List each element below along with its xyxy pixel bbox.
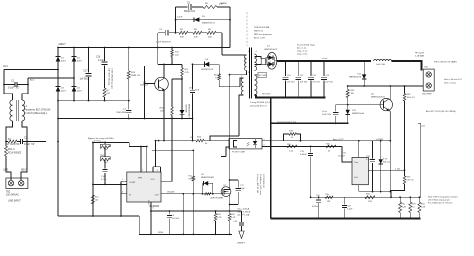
resistor R23: [214, 211, 222, 234]
wire bridge gnd down: [57, 101, 59, 216]
capacitor C8: [189, 64, 200, 118]
junction dots bottom bus: [57, 100, 105, 102]
svg-text:TL431?: TL431?: [338, 156, 346, 158]
svg-text:27 1/2W 5%: 27 1/2W 5%: [7, 144, 20, 146]
svg-text:1N4148W: 1N4148W: [116, 112, 127, 114]
svg-text:10pF: 10pF: [240, 188, 245, 190]
junction sense row: [150, 210, 231, 212]
pin U1 pin7 VCC top: [141, 147, 143, 173]
svg-text:TB2: TB2: [6, 192, 11, 194]
wire comp left col: [92, 142, 94, 216]
svg-text:2-2uF: 2-2uF: [366, 159, 372, 161]
svg-text:NCTUM: NCTUM: [259, 75, 267, 77]
svg-text:4007: 4007: [77, 61, 83, 63]
wire comp wire: [93, 183, 127, 185]
node +5 label: [322, 58, 328, 60]
diode D11: [349, 74, 366, 80]
wire diode column: [363, 61, 365, 86]
svg-text:with 3 Watt output power: with 3 Watt output power: [428, 199, 450, 202]
svg-text:1uF 16V: 1uF 16V: [312, 82, 320, 84]
svg-text:0.1uF "X2": 0.1uF "X2": [24, 144, 35, 146]
svg-text:Ipk = 1.1a: Ipk = 1.1a: [297, 48, 307, 50]
svg-text:MMBT4403LT1: MMBT4403LT1: [371, 97, 386, 99]
pin U1 pin1 COMP: [121, 179, 127, 181]
note pin1 text: [434, 61, 458, 64]
svg-text:TBxxTWH: TBxxTWH: [422, 94, 432, 96]
wire q1 top rail: [158, 63, 182, 65]
junction r19 col: [128, 100, 130, 102]
resistor R32: [365, 194, 375, 203]
wire r13 top: [172, 78, 182, 80]
zener D8: [180, 79, 190, 120]
svg-text:+RECT: +RECT: [58, 44, 66, 46]
transistor Q2 MOSFET: [210, 185, 231, 200]
resistor R4: [202, 29, 222, 39]
capacitor C13: [321, 61, 334, 98]
wire +5V bus thick 2: [392, 61, 422, 71]
diode D10 dual schottky: [261, 46, 278, 70]
svg-text:Rout = 40 max 170: Rout = 40 max 170: [444, 78, 462, 81]
wire to tl431: [342, 146, 352, 162]
op-amp U1 PWM controller UC3842B: [127, 172, 161, 208]
transformer T1 secondary winding upper: [255, 51, 258, 71]
wire opto stub: [221, 155, 226, 157]
svg-text:10uF: 10uF: [195, 90, 200, 92]
svg-text:VFB: VFB: [138, 178, 143, 180]
junction q1 top rail: [163, 64, 173, 66]
wire bridge right mid: [73, 62, 75, 87]
svg-text:2.1A MAX: 2.1A MAX: [415, 55, 425, 58]
svg-text:pxd: pxd: [422, 126, 425, 128]
svg-text:2-2R: 2-2R: [402, 207, 407, 209]
wire to choke right: [22, 85, 28, 101]
zener D9: [201, 174, 215, 194]
svg-text:Iavg = 0.1a: Iavg = 0.1a: [297, 54, 308, 56]
wire drain column: [229, 75, 231, 187]
junction gate wire: [192, 150, 194, 195]
svg-text:4.7V: 4.7V: [383, 159, 388, 161]
pin U1 pin3 ISNS: [121, 192, 127, 194]
wire choke left down: [6, 121, 13, 142]
wire B+ bus: [58, 47, 230, 49]
wire sec top to diode: [255, 57, 262, 59]
resistor R3: [188, 29, 202, 39]
wire bottom rail 1: [359, 191, 391, 193]
svg-text:5: 5: [153, 208, 154, 210]
capacitor C9 gate: [167, 210, 180, 234]
isolation barrier dashed line: [246, 12, 248, 46]
node SRSS gnd label: [158, 232, 164, 234]
transformer T1 tap box: [255, 72, 267, 77]
transformer T1 primary winding: [244, 51, 251, 74]
note tb1 text: [444, 78, 462, 85]
capacitor C12: [308, 61, 321, 98]
svg-text:1uF 16V: 1uF 16V: [300, 82, 308, 84]
wire bus step to primary: [221, 48, 223, 56]
capacitor C15: [322, 105, 338, 125]
wire aux bottom down: [239, 95, 244, 136]
wire q1 collector: [163, 64, 165, 78]
diode D5: [176, 16, 231, 25]
svg-text:4-7nF: 4-7nF: [101, 179, 107, 181]
svg-text:For 3:3Watt part 0.775 ohm: For 3:3Watt part 0.775 ohm: [428, 202, 453, 205]
svg-text:0.1W (2W) filmg caps: 0.1W (2W) filmg caps: [111, 68, 113, 90]
wire secondary return thick: [256, 95, 326, 98]
resistor R5: [203, 3, 230, 9]
junction r11 bottom: [181, 78, 183, 80]
resistor R21: [100, 142, 110, 151]
node output label: [297, 44, 316, 56]
junction q1 base: [144, 83, 146, 85]
svg-text:1.13mH (differential) L: 1.13mH (differential) L: [25, 112, 48, 115]
capacitor C2: [17, 138, 35, 147]
pin U1 pin5 GND bottom: [151, 202, 154, 234]
resistor R6: [214, 64, 221, 86]
svg-text:TRSUS NUCMA: TRSUS NUCMA: [254, 26, 270, 29]
wire vcc row: [219, 86, 240, 88]
junction dots snubber: [175, 19, 231, 34]
wire to choke left: [4, 85, 13, 101]
junction fb row2: [310, 146, 312, 148]
resistor R1: [6, 139, 20, 146]
capacitor C31: [342, 197, 353, 218]
wire AC2 vertical: [27, 78, 29, 85]
diode D6: [192, 59, 220, 71]
wire vref rail: [93, 141, 129, 143]
svg-text:680pF 1kV: 680pF 1kV: [184, 11, 196, 13]
wire q5 emitter col: [389, 141, 391, 192]
resistor R22: [100, 147, 110, 164]
wire U1 left pins col: [120, 181, 122, 194]
wire opto left bottom: [226, 147, 229, 156]
svg-text:MMBZ5240B3: MMBZ5240B3: [201, 177, 215, 179]
svg-text:Next 3 NPO sharp-pulse resisto: Next 3 NPO sharp-pulse resistors: [428, 196, 458, 199]
transistor Q1: [140, 77, 168, 91]
wire drain: [228, 180, 229, 190]
svg-text:Bid ami: Bid ami: [383, 162, 390, 164]
resistor R10: [171, 48, 180, 65]
svg-text:8: 8: [157, 170, 158, 172]
optocoupler U2: [229, 139, 262, 154]
resistor R33: [409, 197, 417, 218]
resistor R24: [228, 211, 236, 234]
resistor R34: [418, 197, 426, 218]
zener D13: [379, 141, 391, 192]
wire drain top: [230, 179, 239, 181]
svg-text:4007: 4007: [61, 91, 67, 93]
capacitor C30: [312, 195, 321, 219]
wire fb rail: [271, 140, 391, 142]
svg-text:UKECHCM3B: UKECHCM3B: [210, 198, 224, 200]
svg-text:1N4148: 1N4148: [167, 191, 175, 193]
wire q1 base col: [144, 66, 146, 119]
wire bridge left mid: [57, 62, 59, 87]
wire RT pin column: [161, 119, 172, 182]
note sense text: [277, 121, 296, 123]
pin opto pin numbers: [264, 139, 265, 147]
svg-text:43K: 43K: [180, 37, 184, 39]
wire choke right down: [22, 121, 27, 142]
svg-text:PC793? LINE: PC793? LINE: [232, 152, 245, 154]
svg-text:1-6uF: 1-6uF: [177, 17, 183, 19]
diode D2: [72, 48, 83, 63]
svg-text:PIN 1 CIRCLE OF LABEL: PIN 1 CIRCLE OF LABEL: [434, 61, 458, 64]
svg-text:1uF 16V: 1uF 16V: [287, 82, 295, 84]
junction vcc row: [155, 140, 194, 142]
terminal block TB1: [422, 67, 434, 96]
capacitor C7: [116, 109, 131, 119]
svg-text:R3x: R3x: [326, 194, 330, 196]
wire line to TB2: [6, 165, 11, 180]
capacitor C1: [4, 80, 28, 90]
node pxd stub: [418, 123, 425, 197]
wire source: [228, 194, 229, 211]
capacitor C5: [176, 3, 204, 14]
svg-text:SRSS: SRSS: [158, 232, 164, 234]
svg-text:10R: 10R: [368, 201, 372, 203]
svg-text:2: 2: [270, 61, 271, 63]
svg-text:MMBZ52xxB: MMBZ52xxB: [352, 113, 365, 115]
svg-text:MELH 14: MELH 14: [254, 31, 264, 33]
pin U1 pin8 VREF top 2: [146, 147, 148, 173]
resistor R9 gate: [205, 193, 212, 195]
svg-text:Apxx (1) XT: Apxx (1) XT: [333, 138, 344, 141]
wire primary gnd rail: [58, 118, 193, 120]
svg-text:Iavg = 1.1a: Iavg = 1.1a: [297, 51, 308, 53]
op-amp U3 TL431: [338, 153, 368, 185]
resistor R27: [325, 194, 333, 203]
svg-text:RV1.0: RV1.0: [8, 149, 15, 151]
node +RECT label: [58, 44, 66, 46]
capacitor C16: [96, 48, 107, 89]
pin U3 bottom pin: [358, 185, 360, 192]
junction u3 top: [358, 140, 360, 142]
node sec return label: [262, 94, 271, 96]
svg-text:Sru = 440uA: Sru = 440uA: [238, 208, 250, 211]
diode D3: [56, 87, 67, 101]
resistor R11: [181, 64, 190, 79]
wire snubber left: [175, 7, 177, 33]
svg-text:15uF 10V: 15uF 10V: [322, 114, 332, 116]
wire AC2 line: [28, 77, 74, 79]
svg-text:COMP: COMP: [129, 182, 136, 184]
diode D4: [72, 87, 83, 101]
svg-text:Tran: Tran: [354, 162, 358, 164]
svg-text:1-10k: 1-10k: [395, 168, 400, 170]
svg-text:NBT line appearanc: NBT line appearanc: [254, 33, 272, 36]
junction fb rail: [270, 140, 391, 142]
capacitor C22 snub: [236, 180, 246, 205]
svg-text:1: 1: [122, 179, 123, 181]
wire primary ground bus: [139, 233, 232, 235]
svg-text:+5 xxx: +5 xxx: [322, 58, 328, 60]
svg-text:1uF 400V filtering: 1uF 400V filtering: [108, 68, 111, 86]
varistor RV1: [5, 142, 22, 166]
wire vcc row left: [156, 140, 193, 142]
wire aux top: [240, 78, 244, 87]
wire neut to TB2: [21, 165, 27, 180]
transformer T1 secondary winding lower: [255, 75, 258, 99]
svg-text:4007: 4007: [61, 61, 67, 63]
svg-text:0.1uF: 0.1uF: [98, 60, 104, 62]
svg-text:C17: C17: [83, 71, 88, 73]
svg-text:MMSD914T1: MMSD914T1: [202, 23, 216, 25]
note rotated text: [256, 174, 264, 195]
wire secondary ground bus thick: [271, 217, 421, 219]
resistor R20: [287, 144, 297, 153]
svg-text:RETURN: RETURN: [262, 94, 271, 96]
node LINE label: [3, 170, 9, 172]
svg-text:0-1R: 0-1R: [421, 207, 426, 209]
wire primary ground bus step: [138, 216, 140, 234]
svg-text:1N5245B: 1N5245B: [185, 104, 187, 113]
svg-text:C3x: C3x: [316, 195, 320, 197]
capacitor C4: [156, 29, 180, 43]
svg-text:43K: 43K: [194, 37, 198, 39]
resistor R13: [159, 79, 173, 119]
svg-text:Gnd = 4 max: Gnd = 4 max: [444, 83, 457, 85]
capacitor C17: [79, 48, 91, 101]
wire primary top: [222, 54, 247, 56]
resistor R31: [399, 197, 407, 218]
svg-text:LINE INPUT: LINE INPUT: [8, 201, 21, 203]
wire fb row: [192, 119, 194, 141]
resistor R14: [190, 137, 229, 146]
junction dots damping row: [5, 141, 28, 143]
junction comp wire: [92, 184, 122, 186]
pin U1 pin8 VREF top: [153, 141, 161, 172]
svg-text:L-primary: L-primary: [244, 57, 246, 65]
resistor R7: [103, 88, 110, 101]
wire opto right bottom: [262, 145, 287, 147]
svg-text:T-mag F15008 Q-5 B: T-mag F15008 Q-5 B: [250, 102, 271, 104]
resistor R17: [152, 150, 195, 193]
svg-text:MURS160T3: MURS160T3: [201, 69, 214, 71]
resistor R25: [326, 144, 336, 153]
svg-text:TxxxLxxxTxxxd xx xxd: TxxxLxxxTxxxd xx xxd: [277, 121, 296, 123]
junction bridge mids: [57, 69, 75, 79]
svg-text:74R: 74R: [327, 201, 331, 203]
svg-text:GT/TD3 MW 1W: GT/TD3 MW 1W: [262, 174, 264, 188]
junction drain node: [229, 179, 231, 205]
transformer T1 label: [250, 102, 271, 107]
svg-text:GND: GND: [147, 200, 149, 205]
svg-text:(C) Img = 4W5 LY 1dB: (C) Img = 4W5 LY 1dB: [256, 174, 258, 194]
junction out wire: [182, 193, 184, 195]
junction vcc rail: [140, 146, 148, 148]
svg-text:1-1R: 1-1R: [217, 217, 222, 219]
wire snubber right: [229, 7, 231, 48]
wire r17 col to gnd: [192, 194, 194, 235]
pin U3 right pin: [368, 168, 405, 171]
junction u1 pins col: [120, 184, 122, 186]
svg-text:100-240VAC: 100-240VAC: [6, 194, 19, 197]
svg-text:ALTD = LHT: ALTD = LHT: [254, 37, 266, 40]
svg-text:249 1%: 249 1%: [407, 180, 414, 182]
svg-text:1: 1: [270, 54, 271, 56]
junction bottom rail: [372, 191, 392, 193]
wire gate: [221, 193, 223, 195]
wire out pulldown col: [182, 194, 184, 235]
pin U1 pin6 OUT: [161, 191, 221, 194]
note adj text: [333, 138, 383, 141]
wire vcc rail: [129, 146, 147, 148]
resistor R2: [179, 29, 188, 39]
wire q5 collector: [389, 86, 391, 100]
resistor R29: [391, 170, 414, 197]
wire primary ground bus left: [58, 215, 139, 217]
wire vcc rail left: [128, 142, 130, 146]
junction sense rail: [390, 196, 420, 198]
wire snubber col right: [221, 33, 223, 55]
svg-text:Teal: Teal: [354, 177, 358, 179]
svg-text:MMSF: MMSF: [221, 3, 228, 5]
svg-text:Isw = 4.40mA: Isw = 4.40mA: [238, 211, 251, 214]
wire +5V bus thick: [277, 60, 371, 62]
diode D1: [56, 48, 67, 63]
svg-text:Bypass for comp xGsYM b: Bypass for comp xGsYM b: [88, 137, 115, 140]
capacitor C24: [234, 211, 245, 231]
svg-text:Ipk = P1.11A: Ipk = P1.11A: [238, 214, 250, 217]
svg-text:0-03uF: 0-03uF: [312, 206, 319, 208]
junction bridge gnd: [57, 118, 59, 143]
svg-text:0-1R: 0-1R: [231, 217, 236, 219]
junction 12V line: [347, 85, 406, 87]
node AC2 label: [30, 79, 35, 82]
svg-text:HP SaUS: HP SaUS: [415, 53, 424, 55]
wire 12V line: [348, 85, 424, 87]
capacitor C11: [295, 61, 308, 98]
svg-text:3: 3: [122, 192, 123, 194]
svg-text:OUT: OUT: [155, 195, 160, 197]
note output hdr: [415, 53, 425, 58]
svg-text:1uF [W]: 1uF [W]: [79, 79, 87, 81]
node rail ticks: [94, 140, 101, 142]
wire primary bottom to drain: [230, 71, 247, 75]
note allow text: [426, 110, 456, 113]
wire AC1 vertical: [3, 70, 5, 85]
svg-text:0.1uF "X2": 0.1uF "X2": [8, 87, 20, 90]
wire sec to diode 2: [255, 64, 262, 66]
note design text: [254, 26, 272, 40]
junction primary gnd: [92, 215, 231, 235]
junction dots vcc row: [229, 74, 231, 76]
junction dots C1: [3, 84, 29, 86]
svg-text:1uF 16V: 1uF 16V: [325, 82, 333, 84]
svg-text:100k 1%: 100k 1%: [407, 97, 415, 99]
junction zener box: [202, 193, 214, 195]
svg-text:SMM 17k: SMM 17k: [131, 75, 141, 77]
transformer T1 aux winding: [241, 76, 244, 95]
svg-text:J/B: J/B: [190, 137, 194, 139]
wire base wire: [336, 104, 381, 106]
zener D12: [346, 105, 365, 124]
node AC1 label: [3, 65, 8, 68]
wire fb row2: [262, 145, 342, 147]
resistor R18 loop: [284, 130, 301, 141]
wire snubber col left to bus: [157, 33, 159, 48]
resistor R26: [346, 86, 355, 105]
wire bridge bottom bus: [58, 100, 129, 102]
resistor R15: [91, 195, 99, 204]
capacitor C14: [101, 160, 108, 185]
capacitor C19: [300, 146, 313, 198]
svg-text:MMBZ5245BLT1: MMBZ5245BLT1: [188, 104, 190, 120]
wire AC1 line: [4, 69, 58, 71]
svg-text:+RMSFT: +RMSFT: [237, 243, 246, 245]
svg-text:0-43uF: 0-43uF: [300, 154, 307, 156]
svg-text:UBR20100CT: UBR20100CT: [264, 49, 278, 51]
